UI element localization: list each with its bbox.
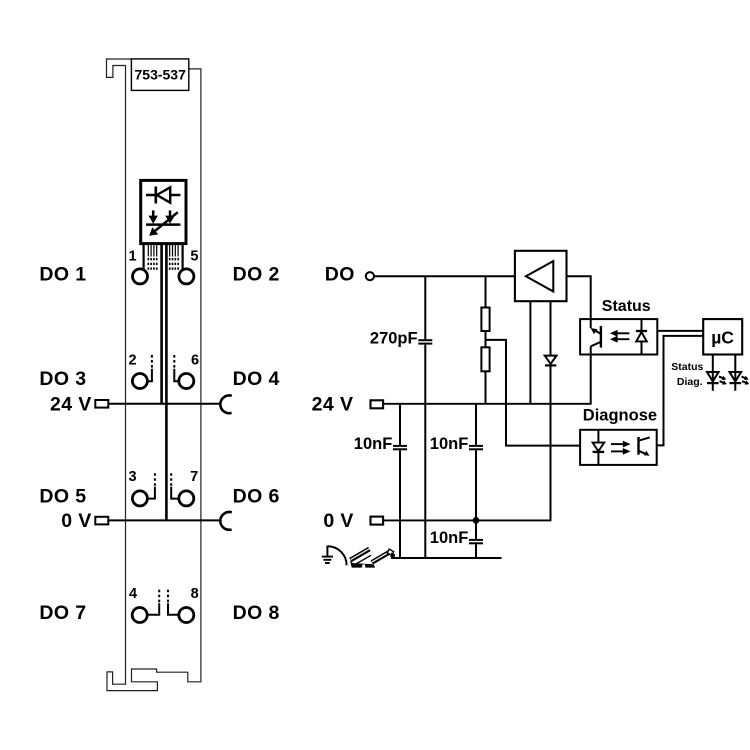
wire uC to Diagnose opto: [657, 336, 703, 446]
LED LD2 Diag indicator under uC: [730, 355, 750, 391]
svg-text:8: 8: [191, 586, 199, 602]
light arrows in Status opto: [610, 330, 630, 343]
svg-text:4: 4: [129, 586, 137, 602]
label Status (LED): [671, 361, 703, 373]
label DO 6: [233, 486, 280, 508]
op-amp U1 output driver box: [515, 251, 567, 301]
label Status: [602, 298, 651, 315]
terminal 5: [179, 249, 199, 284]
svg-text:DO 7: DO 7: [39, 602, 86, 624]
wire driver output to Status opto: [567, 276, 591, 319]
capacitor C4 10nF (0V to earth): [430, 520, 483, 558]
svg-text:DO 3: DO 3: [39, 368, 86, 390]
schematic 24 V rail: label, square terminal, wire: [312, 393, 592, 415]
svg-text:24 V: 24 V: [312, 393, 354, 415]
svg-text:DO 4: DO 4: [233, 368, 280, 390]
node DO: label and open terminal: [325, 264, 374, 286]
svg-text:753-537: 753-537: [135, 66, 187, 82]
svg-text:24 V: 24 V: [50, 393, 92, 415]
wire DO to driver input: [374, 275, 515, 277]
LED LD1 Status indicator under uC: [707, 355, 727, 391]
wire Status emitter down to 24V rail end: [590, 355, 592, 404]
wire divider tap to Diagnose LED: [486, 340, 581, 446]
terminal 3: [129, 469, 155, 506]
label Diagnose: [583, 406, 657, 424]
svg-text:Diagnose: Diagnose: [583, 406, 657, 424]
svg-text:DO 8: DO 8: [233, 602, 280, 624]
svg-text:0 V: 0 V: [323, 510, 353, 532]
svg-text:DO 6: DO 6: [233, 486, 280, 508]
label DO 7: [39, 602, 86, 624]
label Diag. (LED): [677, 376, 703, 388]
svg-text:7: 7: [190, 469, 198, 485]
earth rail wire: [391, 557, 502, 559]
svg-text:10nF: 10nF: [430, 529, 469, 547]
svg-text:10nF: 10nF: [354, 435, 393, 453]
wire bundle thin leads: [148, 244, 178, 257]
capacitor C2 10nF (24V to earth): [354, 404, 407, 558]
svg-text:6: 6: [191, 353, 199, 369]
module 753-537 body outline: [107, 59, 201, 691]
label DO 5: [39, 486, 86, 508]
phototransistor in Status opto: [591, 319, 601, 354]
diode D1 on driver output to 0V: [545, 301, 557, 520]
svg-text:270pF: 270pF: [370, 330, 418, 348]
terminal 4: [129, 586, 159, 623]
terminal 8: [168, 586, 199, 623]
node junction dot on 0V: [473, 517, 480, 524]
LED in Status opto: [636, 319, 647, 354]
svg-text:Status: Status: [671, 361, 703, 373]
label DO 3: [39, 368, 86, 390]
wire bundle below box: outer solid leads: [144, 244, 183, 270]
microcontroller U4 uC box: [703, 319, 742, 354]
svg-text:10nF: 10nF: [430, 435, 469, 453]
svg-text:5: 5: [190, 249, 198, 265]
svg-text:3: 3: [129, 469, 137, 485]
terminal 6: [174, 353, 199, 389]
svg-text:1: 1: [129, 249, 137, 265]
label box 753-537: [131, 59, 188, 91]
optocoupler U3 Diagnose box: [580, 430, 657, 465]
svg-text:0 V: 0 V: [61, 510, 91, 532]
wire bundle dotted continuation: [148, 258, 179, 270]
svg-text:Status: Status: [602, 298, 651, 315]
power rail pair down the middle: [162, 244, 167, 521]
optocoupler U2 Status box: [580, 319, 657, 354]
capacitor C1 270pF (DO to earth): [370, 276, 432, 558]
module 24V feed: label, square terminal, wire, clamp contact: [50, 393, 232, 415]
terminal 2: [129, 353, 152, 389]
svg-text:DO 2: DO 2: [233, 264, 280, 286]
capacitor C3 10nF (24V to 0V): [430, 404, 483, 521]
phototransistor in Diagnose opto: [639, 437, 650, 456]
terminal 1: [129, 249, 148, 284]
terminal 7: [171, 469, 198, 506]
resistor R1: [481, 276, 489, 331]
label DO 8: [233, 602, 280, 624]
wire driver pin to 24V rail: [529, 301, 531, 404]
LED in Diagnose opto: [593, 430, 605, 465]
resistor R2: [481, 331, 489, 404]
diode symbol inside box: [146, 187, 180, 204]
suppressor symbol inside box: [146, 210, 180, 235]
svg-text:DO 1: DO 1: [39, 264, 86, 286]
module 0V feed: label, square terminal, wire, clamp contact: [61, 510, 232, 532]
wire Status opto to uC: [657, 330, 703, 332]
svg-text:DO: DO: [325, 264, 355, 286]
label DO 1: [39, 264, 86, 286]
schematic 0 V rail: label, square terminal, wire: [323, 510, 551, 532]
label DO 4: [233, 368, 280, 390]
DIN rail 3D symbol: [350, 549, 395, 568]
electronics box (diode / suppressor symbols): [141, 180, 186, 243]
label DO 2: [233, 264, 280, 286]
ground symbol (earth with arc): [322, 546, 347, 566]
svg-text:DO 5: DO 5: [39, 486, 86, 508]
svg-text:2: 2: [129, 353, 137, 369]
svg-text:µC: µC: [711, 327, 734, 347]
svg-text:Diag.: Diag.: [677, 376, 703, 388]
light arrows in Diagnose opto: [611, 441, 631, 455]
